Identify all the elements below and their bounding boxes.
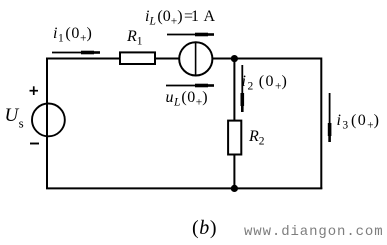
label i1(0+) — [53, 26, 92, 42]
label R2 — [249, 129, 265, 145]
label iL(0+)=1A — [145, 9, 215, 25]
arrow uL — [166, 84, 214, 88]
wire middle branch — [233, 58, 235, 189]
voltage source U_s circle — [32, 104, 65, 137]
resistor R1 — [120, 52, 155, 64]
label Us — [5, 106, 24, 125]
minus sign of source — [29, 141, 45, 147]
figure label (b) — [192, 218, 217, 238]
current source circle — [179, 42, 212, 75]
wire bottom — [46, 187, 322, 189]
arrow i1 — [52, 51, 100, 55]
resistor R2 — [228, 121, 241, 155]
watermark www.diangon.com — [244, 225, 384, 239]
label i3(0+) — [337, 113, 381, 129]
node junction bottom — [231, 185, 238, 192]
label R1 — [127, 29, 143, 45]
arrow i2 — [241, 65, 245, 112]
label i2(0+) — [242, 74, 289, 90]
wire top-left horizontal: corner to current source — [47, 59, 180, 190]
plus sign of source — [26, 84, 46, 98]
current source internal bar — [195, 43, 197, 76]
wire top-right horizontal: current source to top-right corner — [212, 59, 321, 190]
label uL(0+) — [166, 90, 209, 106]
arrow i3 — [328, 93, 332, 142]
arrow iL — [167, 33, 214, 37]
node junction top — [231, 55, 238, 62]
